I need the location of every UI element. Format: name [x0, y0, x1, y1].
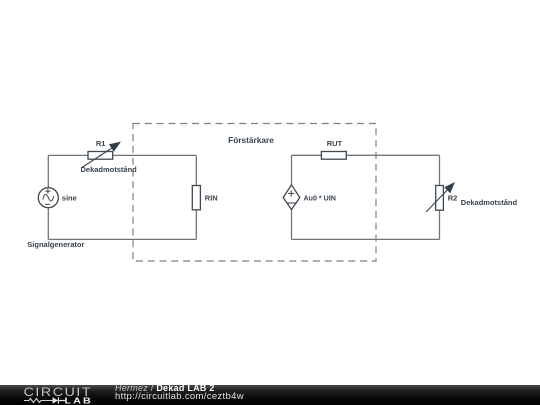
wire bottom rail left loop [48, 238, 196, 240]
wire dependent source bottom lead [291, 210, 293, 240]
footer bar [0, 385, 540, 405]
wire top rail (source to RUT) [292, 154, 322, 156]
svg-text:RIN: RIN [205, 193, 218, 202]
resistor R2 (variable, Dekadmotstånd) [436, 186, 444, 211]
dependent source (Au0 * UIN) [283, 185, 300, 210]
wire RIN bottom lead [195, 210, 197, 240]
resistor R2 wiper arrow [426, 182, 455, 212]
svg-text:LAB: LAB [64, 396, 92, 405]
wire bottom rail right loop [292, 238, 440, 240]
resistor zigzag [24, 399, 53, 403]
wire top rail left (to R1) [48, 154, 88, 156]
wire top rail right of R1 (to RIN) [113, 154, 197, 156]
svg-text:Dekadmotstånd: Dekadmotstånd [81, 165, 138, 174]
diode [53, 397, 59, 403]
svg-text:Au0 * UIN: Au0 * UIN [304, 194, 336, 202]
svg-text:Förstärkare: Förstärkare [228, 135, 274, 145]
svg-text:R1: R1 [96, 139, 106, 148]
attribution line 2 [115, 393, 244, 400]
svg-text:R2: R2 [448, 194, 458, 203]
wire R2 bottom lead [439, 210, 441, 239]
svg-text:sine: sine [62, 193, 77, 202]
resistor RUT [321, 152, 346, 160]
dependent source polarity marks [287, 191, 297, 204]
wire left vertical top (source to top rail) [47, 155, 49, 187]
voltage source V1 (sine, Signalgenerator) [38, 188, 58, 208]
wire R2 top lead [439, 155, 441, 185]
CircuitLab logo [23, 385, 103, 405]
resistor RIN [192, 186, 200, 210]
resistor R1 wiper arrow [81, 142, 121, 168]
svg-text:Signalgenerator: Signalgenerator [27, 240, 84, 249]
attribution line 1 [115, 385, 215, 392]
amplifier boundary box (dashed) [133, 124, 376, 262]
wire left vertical bottom (source to bottom rail) [47, 208, 49, 240]
svg-text:Dekadmotstånd: Dekadmotstånd [461, 198, 518, 207]
wire top rail (RUT to R2) [346, 154, 439, 156]
resistor R1 (variable, Dekadmotstånd) [88, 152, 113, 160]
svg-text:RUT: RUT [327, 139, 343, 148]
wire dependent source top lead [291, 155, 293, 185]
wire RIN top lead [195, 155, 197, 185]
